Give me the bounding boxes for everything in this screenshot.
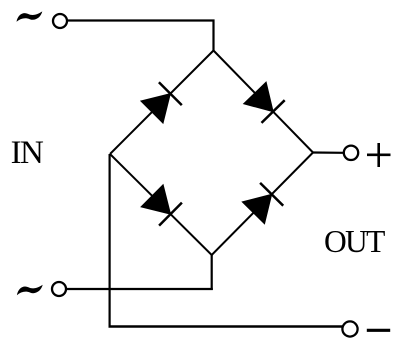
terminal DC output - (open circle) [342, 321, 357, 336]
terminal DC output + (open circle) [344, 146, 358, 160]
label - polarity mark [367, 329, 390, 332]
terminal AC input bottom (open circle) [52, 282, 66, 296]
wire drop from bottom vertex to AC2 rail [211, 255, 213, 290]
diode D2 (top anode to right cathode, upper-right arm) [244, 82, 285, 123]
wire diamond upper-right arm [214, 51, 314, 153]
wire bottom rail to - terminal [109, 325, 343, 327]
wire AC2 terminal to bottom vertex drop [66, 288, 213, 290]
label ~ AC symbol top [17, 11, 43, 21]
wire diamond lower-left arm [110, 154, 212, 255]
svg-text:OUT: OUT [324, 224, 385, 259]
label + polarity mark [367, 143, 391, 167]
wire diamond upper-left arm [110, 51, 214, 155]
diode D3 (left anode to bottom cathode, lower-left arm) [141, 185, 182, 226]
wire top rail from AC1 terminal to corner [67, 21, 214, 51]
diode D4 (bottom anode to right cathode, lower-right arm) [242, 183, 283, 224]
wire drop from left vertex to bottom rail [108, 154, 110, 327]
svg-text:IN: IN [11, 135, 44, 171]
wire diamond lower-right arm [212, 153, 313, 256]
diode D1 (lower-left anode to top cathode, upper-left arm) [141, 82, 182, 123]
label ~ AC symbol bottom [17, 285, 43, 295]
terminal AC input top (open circle) [53, 14, 67, 28]
wire from right vertex to + terminal [313, 151, 343, 154]
